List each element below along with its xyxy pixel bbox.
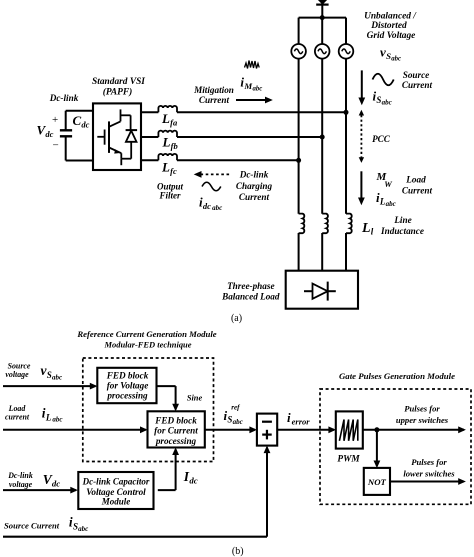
wire IGBT top tap — [121, 115, 131, 130]
label dc-link capacitor voltage control module — [82, 477, 150, 507]
svg-text:−: − — [53, 140, 59, 152]
svg-text:Current: Current — [402, 186, 433, 196]
svg-text:(b): (b) — [232, 546, 244, 557]
svg-text:Load: Load — [405, 175, 426, 185]
diode VSI freewheel — [126, 130, 138, 159]
label FED voltage box — [106, 370, 149, 400]
icon distorted wave iM — [245, 61, 260, 69]
arrow load current — [358, 171, 365, 205]
wire sine connector — [157, 386, 180, 411]
svg-text:voltage: voltage — [9, 480, 33, 489]
label dc-link voltage — [7, 471, 60, 489]
svg-text:Dc-link: Dc-link — [49, 93, 79, 103]
svg-text:for Voltage: for Voltage — [107, 381, 149, 391]
svg-text:Current: Current — [239, 192, 270, 202]
svg-text:Dc-link: Dc-link — [7, 471, 33, 480]
svg-text:FED block: FED block — [154, 415, 197, 425]
wire phase c to load — [298, 233, 300, 271]
inductor Ll phase a — [346, 214, 352, 234]
inductor Ll phase b — [322, 214, 328, 234]
label standard VSI — [92, 77, 145, 98]
icon sine iS — [373, 74, 394, 86]
label three-phase load — [221, 281, 280, 302]
wire dc-link bottom — [66, 160, 93, 162]
wire bus c — [177, 159, 299, 161]
svg-text:Pulses for: Pulses for — [411, 457, 447, 467]
ground — [316, 0, 328, 18]
svg-text:(PAPF): (PAPF) — [103, 87, 133, 98]
svg-text:Source Current: Source Current — [4, 521, 60, 531]
wire bus b — [177, 136, 322, 138]
wire VSI out a — [141, 111, 158, 113]
label load current — [5, 404, 63, 424]
svg-text:Unbalanced /: Unbalanced / — [364, 12, 417, 22]
svg-text:Inductance: Inductance — [380, 226, 424, 236]
box gate pulses generation module (dashed) — [320, 389, 471, 504]
box PWM — [336, 411, 363, 448]
inductor Lfb — [158, 131, 177, 137]
label source current — [373, 70, 433, 107]
icon sine idc — [202, 182, 221, 191]
wire phase c vertical — [298, 59, 300, 214]
svg-text:(a): (a) — [231, 313, 242, 324]
label mitigation current — [193, 75, 262, 106]
svg-text:Pulses for: Pulses for — [404, 404, 440, 414]
capacitor Cdc — [60, 111, 72, 161]
wire Vdc input — [3, 487, 78, 494]
svg-text:Mitigation: Mitigation — [193, 85, 234, 95]
wire to NOT — [374, 430, 381, 468]
wire Idc connector — [158, 447, 179, 490]
svg-text:Charging: Charging — [236, 181, 273, 191]
svg-text:Dc-link Capacitor: Dc-link Capacitor — [82, 477, 150, 487]
svg-text:Filter: Filter — [158, 191, 180, 201]
label grid voltage — [364, 12, 417, 63]
box NOT — [364, 468, 390, 495]
svg-text:Module: Module — [101, 497, 131, 507]
label FED current box — [154, 415, 198, 446]
label source current feedback — [4, 515, 88, 533]
arrow PCC dashed double — [359, 110, 364, 163]
wire phase b vertical — [321, 59, 323, 214]
inductor Ll phase c — [299, 214, 305, 234]
svg-text:Modular-FED technique: Modular-FED technique — [104, 340, 192, 350]
svg-text:ref: ref — [231, 403, 240, 411]
inductor Lfc — [158, 154, 177, 160]
inductor Lfa — [158, 106, 177, 112]
wire iS ref output — [205, 426, 257, 433]
wire NOT output — [390, 478, 466, 485]
label Vdc — [37, 114, 59, 152]
junction bus c — [296, 158, 301, 163]
svg-text:for Current: for Current — [154, 426, 198, 436]
wire IGBT bottom — [121, 159, 131, 166]
summing junction — [257, 414, 277, 446]
label summing signs — [262, 422, 272, 440]
box dc-link capacitor voltage control module — [78, 472, 153, 509]
box FED voltage processing — [97, 368, 156, 403]
svg-text:Current: Current — [199, 95, 230, 105]
wire grid header — [299, 18, 346, 44]
wire source current feedback — [3, 446, 270, 537]
wire phase a to load — [345, 233, 347, 271]
wire VSI out b — [141, 136, 158, 138]
wire vS input — [3, 383, 97, 390]
box reference current generation module (dashed) — [83, 358, 214, 462]
svg-text:processing: processing — [155, 436, 197, 446]
wire error to PWM — [277, 426, 336, 433]
junction bus b — [320, 135, 325, 140]
box FED current processing — [148, 411, 205, 447]
label iS ref — [224, 403, 243, 426]
svg-text:Voltage Control: Voltage Control — [86, 487, 146, 497]
svg-text:processing: processing — [106, 390, 148, 400]
ac source Va — [291, 44, 306, 59]
svg-text:PCC: PCC — [372, 134, 391, 144]
diode load — [304, 282, 336, 301]
svg-text:Balanced Load: Balanced Load — [221, 292, 280, 302]
wire dc-link top — [66, 110, 93, 112]
svg-text:Line: Line — [393, 215, 411, 225]
svg-text:Sine: Sine — [187, 394, 203, 403]
transistor IGBT — [97, 109, 121, 158]
svg-text:Grid Voltage: Grid Voltage — [367, 31, 416, 41]
svg-text:Three-phase: Three-phase — [227, 281, 274, 291]
label reference current generation module — [76, 329, 216, 350]
arrow dc-link charging (dashed left) — [194, 171, 230, 178]
svg-text:NOT: NOT — [367, 477, 387, 487]
svg-text:Gate Pulses Generation Module: Gate Pulses Generation Module — [339, 371, 455, 381]
label pulses upper — [396, 404, 449, 426]
label load current — [376, 171, 433, 208]
ac source Vc — [339, 44, 354, 59]
wire bus a — [177, 111, 346, 113]
wire phase b to load — [321, 233, 323, 271]
label pulses lower — [403, 457, 455, 479]
svg-text:Distorted: Distorted — [370, 21, 407, 31]
svg-text:Standard VSI: Standard VSI — [92, 77, 145, 87]
svg-text:current: current — [5, 412, 30, 421]
wire phase a vertical — [345, 59, 347, 214]
label dc-link charging current — [199, 170, 273, 212]
wire VSI out c — [141, 159, 158, 161]
svg-text:FED block: FED block — [106, 370, 149, 380]
svg-text:upper switches: upper switches — [396, 415, 449, 425]
ac source Vb — [315, 44, 330, 59]
label output filter — [157, 182, 184, 201]
junction PWM out — [374, 427, 379, 432]
label source voltage — [5, 362, 62, 382]
label line inductance — [361, 215, 424, 237]
wire iL input — [3, 426, 148, 433]
junction grid neutral — [320, 15, 325, 20]
svg-text:lower switches: lower switches — [403, 469, 455, 479]
arrow source current — [358, 70, 365, 105]
three-phase load box — [286, 271, 358, 309]
junction bus a — [344, 110, 349, 115]
svg-text:+: + — [52, 114, 58, 126]
arrow mitigation current — [236, 97, 273, 104]
svg-text:Current: Current — [402, 80, 433, 90]
svg-text:Dc-link: Dc-link — [239, 170, 269, 180]
svg-text:PWM: PWM — [337, 455, 360, 465]
svg-text:Reference Current Generation M: Reference Current Generation Module — [76, 329, 216, 339]
icon sawtooth PWM — [339, 420, 357, 441]
svg-text:Source: Source — [403, 70, 430, 80]
op VSI box — [93, 103, 141, 170]
wire PWM output — [363, 426, 466, 433]
svg-text:voltage: voltage — [5, 370, 29, 379]
